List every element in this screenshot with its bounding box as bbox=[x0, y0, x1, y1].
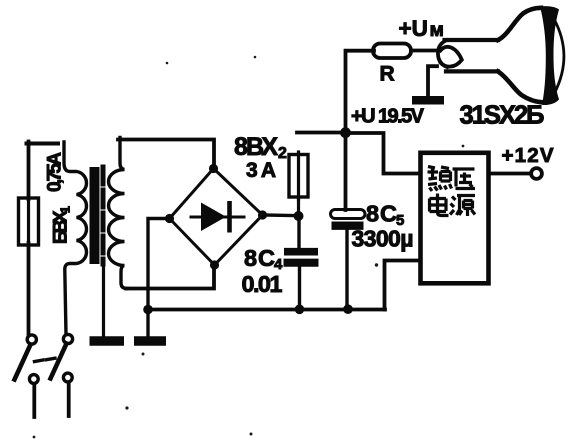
wire fuse top to +U node bbox=[297, 131, 346, 135]
hanzi DIAN (electric) bbox=[430, 194, 449, 216]
transformer T secondary winding bbox=[109, 138, 128, 289]
svg-text:БВХ1: БВХ1 bbox=[51, 206, 73, 244]
fuse 8VX2 lead down bbox=[297, 197, 300, 216]
CRT screen front glass arc bbox=[554, 19, 564, 93]
transformer core ground lead bbox=[102, 264, 105, 337]
node rail-left bbox=[143, 305, 153, 315]
node rail-C5 bbox=[343, 304, 353, 314]
wire bridge plus output bbox=[263, 213, 299, 217]
fuse BVX1 body bbox=[19, 198, 39, 245]
node +U 19.5V bbox=[340, 127, 351, 138]
fuse 8VX2 lead up bbox=[297, 152, 300, 199]
ground bar 1 bbox=[90, 336, 125, 346]
svg-text:8ВХ: 8ВХ bbox=[234, 133, 278, 161]
svg-text:+U: +U bbox=[399, 16, 428, 41]
CRT neck bottom edge bbox=[446, 69, 498, 73]
capacitor C4 lead down bbox=[298, 267, 301, 310]
svg-text:2: 2 bbox=[278, 145, 287, 162]
CRT electron gun teardrop bbox=[441, 47, 462, 67]
wire bridge minus to ground rail bbox=[148, 219, 170, 339]
switch S pole-b bottom contact bbox=[63, 373, 72, 382]
transformer T primary winding bbox=[64, 142, 86, 334]
wire left rail upper bbox=[27, 142, 31, 200]
switch S pole-b blade bbox=[51, 344, 67, 379]
CRT gun ground lead bbox=[428, 66, 437, 96]
capacitor C5 top plate (hollow) bbox=[331, 210, 366, 219]
wire regulator output bbox=[489, 172, 531, 176]
output terminal +12V bbox=[531, 168, 542, 179]
switch gang link dashes bbox=[35, 358, 56, 361]
switch S pole-b top contact bbox=[63, 334, 72, 343]
hanzi WEN (stable) bbox=[428, 167, 452, 192]
node rail-C4 bbox=[295, 305, 305, 315]
ground bar 2 bbox=[134, 336, 166, 346]
switch S pole-b bottom lead bbox=[67, 383, 71, 417]
wire left rail lower bbox=[27, 243, 31, 334]
switch S pole-a top contact bbox=[27, 335, 36, 344]
switch S pole-a blade bbox=[15, 345, 31, 380]
wire top-left mains horizontal bbox=[27, 142, 59, 146]
CRT neck top edge bbox=[445, 38, 499, 42]
bridge node bottom bbox=[210, 260, 219, 269]
resistor R body bbox=[373, 44, 411, 59]
CRT funnel top edge bbox=[498, 8, 541, 40]
node plus junction bbox=[294, 211, 304, 221]
bridge rectifier diamond bbox=[170, 169, 263, 266]
svg-text:+12V: +12V bbox=[502, 144, 554, 167]
capacitor C4 top plate bbox=[284, 248, 318, 256]
transformer T core dashed bar bbox=[101, 167, 106, 264]
svg-text:3A: 3A bbox=[246, 159, 276, 182]
CRT neck left end bbox=[438, 41, 447, 67]
svg-text:31SX2Б: 31SX2Б bbox=[460, 102, 545, 130]
wire R to CRT bbox=[411, 49, 435, 53]
svg-text:3300µ: 3300µ bbox=[352, 226, 414, 252]
bridge diode cathode bar bbox=[227, 201, 232, 233]
switch S pole-a bottom lead bbox=[32, 384, 36, 417]
CRT funnel bottom edge bbox=[498, 71, 545, 102]
wire node to regulator top input bbox=[346, 133, 421, 174]
svg-text:8C: 8C bbox=[244, 245, 275, 271]
hanzi YA (pressure) bbox=[453, 169, 476, 189]
wire secondary bottom to bridge bbox=[126, 265, 214, 289]
svg-text:R: R bbox=[380, 63, 395, 86]
hanzi YUAN (source) bbox=[450, 196, 475, 217]
bridge diode lead line bbox=[191, 216, 244, 219]
CRT screen thick band bbox=[540, 6, 559, 105]
bridge diode triangle bbox=[201, 203, 226, 232]
bridge node left bbox=[165, 214, 174, 223]
capacitor C4 bottom plate bbox=[284, 259, 319, 267]
svg-text:8C: 8C bbox=[366, 201, 397, 227]
wire main vertical (node up to R, down to C5) bbox=[346, 51, 375, 210]
svg-text:+U 19.5V: +U 19.5V bbox=[351, 106, 425, 128]
transformer T core solid bar bbox=[90, 167, 100, 264]
svg-text:0.01: 0.01 bbox=[242, 271, 283, 297]
switch S pole-a bottom contact bbox=[29, 375, 38, 384]
regulator box bbox=[421, 153, 489, 283]
capacitor C4 lead up bbox=[297, 216, 300, 248]
fuse BVX1 inner lead bbox=[27, 196, 30, 245]
bridge node right bbox=[258, 210, 267, 219]
wire secondary top to bridge bbox=[118, 140, 214, 169]
scan specks bbox=[33, 56, 465, 439]
capacitor C5 lead down bbox=[345, 230, 348, 310]
CRT ground bar bbox=[412, 96, 444, 105]
capacitor C5 bottom plate bbox=[332, 221, 364, 229]
bridge node top bbox=[209, 164, 218, 173]
wire bottom rail bbox=[148, 308, 385, 312]
svg-text:м: м bbox=[430, 19, 444, 41]
wire rail to regulator bottom input bbox=[385, 261, 419, 310]
fuse 8VX2 body bbox=[289, 155, 308, 198]
